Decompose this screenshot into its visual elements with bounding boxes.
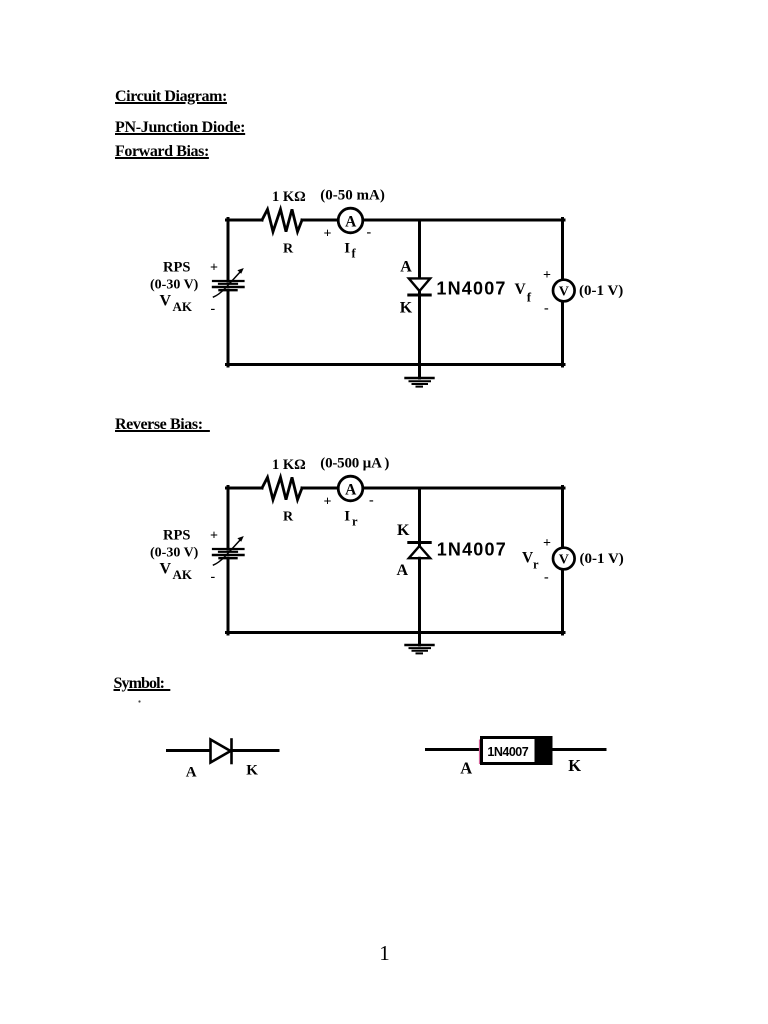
battery RPS (reverse): plates (213, 549, 244, 558)
svg-text:I: I (344, 241, 350, 257)
svg-text:AK: AK (173, 567, 193, 582)
svg-text:-: - (211, 570, 216, 585)
heading: PN-Junction Diode: (115, 120, 245, 136)
svg-text:f: f (352, 247, 357, 261)
heading: Forward Bias: (115, 144, 209, 160)
package symbol: cathode band (535, 736, 553, 765)
wire: left side lower (forward) (227, 290, 230, 366)
resistor R (reverse, 1 KOhm) (262, 477, 302, 499)
svg-text:1N4007: 1N4007 (437, 540, 507, 560)
wire: diode branch lower (forward) (418, 291, 421, 367)
battery variable arrow (reverse) (214, 536, 244, 565)
svg-text:-: - (211, 302, 216, 317)
label: 1 KOhm (forward) (272, 189, 306, 205)
wire: right side (forward) (561, 219, 564, 367)
svg-text:+: + (324, 227, 332, 242)
wire: left side upper (reverse) (227, 487, 230, 550)
svg-text:K: K (400, 299, 413, 316)
label: R (reverse) (283, 510, 294, 525)
label: K cathode (forward) (400, 299, 413, 316)
svg-text:+: + (543, 536, 551, 551)
label: Vr (522, 550, 539, 572)
label: + at voltmeter (reverse) (543, 536, 551, 551)
svg-text:+: + (543, 268, 551, 283)
label: (0-50 mA) (320, 188, 385, 204)
label: + at voltmeter (forward) (543, 268, 551, 283)
label: + at battery (reverse) (210, 529, 218, 544)
svg-text:r: r (352, 515, 358, 529)
wire: ammeter to top-right corner (reverse) (363, 487, 564, 490)
label: (0-30 V) (reverse) (150, 546, 199, 561)
ground stem (reverse) (418, 633, 421, 646)
wire: ammeter to top-right corner (forward) (363, 219, 564, 222)
dot artifact below Symbol heading (138, 700, 140, 702)
battery RPS (forward): plates (213, 281, 244, 290)
svg-text:-: - (544, 570, 549, 585)
svg-text:(0-30 V): (0-30 V) (150, 278, 199, 293)
ammeter A (reverse, 0-500 uA) (338, 476, 363, 501)
label: 1 KOhm (reverse) (272, 457, 306, 473)
label: VAK (reverse) (160, 561, 193, 583)
label: A (symbol left) (186, 764, 197, 780)
label: VAK (forward) (160, 293, 193, 315)
package symbol: right lead wire (552, 748, 605, 751)
wire: left side lower (reverse) (227, 558, 230, 634)
svg-text:A: A (186, 764, 197, 780)
package symbol: 1N4007 text (487, 745, 528, 759)
resistor R (forward, 1 KOhm) (262, 209, 302, 231)
svg-text:(0-1 V): (0-1 V) (579, 283, 623, 299)
package symbol: scan artifact pink edge (479, 740, 481, 765)
wire: resistor to ammeter (reverse) (302, 487, 339, 490)
svg-text:V: V (559, 553, 569, 568)
svg-text:1 KΩ: 1 KΩ (272, 189, 306, 205)
diode symbol: right lead wire (232, 749, 279, 752)
svg-text:K: K (246, 763, 258, 779)
diode D1 cathode bar (409, 294, 430, 297)
diode D1 1N4007 (forward): triangle (409, 278, 430, 291)
label: RPS (reverse) (163, 527, 190, 543)
heading: Reverse Bias: (115, 417, 210, 433)
label: 1N4007 (forward) (436, 278, 506, 298)
label: + at ammeter (forward) (324, 227, 332, 242)
page number 1 (379, 943, 390, 964)
label: R (forward) (283, 242, 294, 257)
heading: Circuit Diagram: (115, 89, 227, 105)
label: Vf (515, 281, 532, 305)
svg-text:r: r (533, 558, 539, 572)
svg-text:(0-50 mA): (0-50 mA) (320, 188, 385, 204)
wire: bottom (forward) (227, 363, 565, 366)
label: A (symbol right) (460, 759, 472, 778)
package symbol: body outline (482, 738, 552, 764)
svg-text:+: + (324, 495, 332, 510)
label: (0-500 uA) (320, 456, 389, 472)
voltmeter V (reverse, 0-1V) (553, 548, 575, 570)
label: K (symbol right) (568, 756, 581, 775)
battery variable arrow (forward) (214, 268, 244, 297)
wire: diode branch upper (reverse) (418, 488, 421, 546)
label: (0-30 V) (forward) (150, 278, 199, 293)
svg-text:AK: AK (173, 299, 193, 314)
label: K (symbol left) (246, 763, 258, 779)
svg-text:(0-30 V): (0-30 V) (150, 546, 199, 561)
svg-text:(0-1 V): (0-1 V) (580, 551, 624, 567)
label: - at voltmeter (reverse) (544, 570, 549, 585)
label: RPS (forward) (163, 259, 190, 275)
svg-text:RPS: RPS (163, 259, 190, 275)
svg-text:-: - (544, 301, 549, 316)
wire: top-left segment (forward) (227, 219, 263, 222)
label: - at ammeter (reverse) (369, 493, 374, 508)
svg-text:I: I (344, 509, 350, 525)
svg-text:A: A (460, 759, 472, 778)
diode symbol: cathode bar (230, 740, 233, 764)
svg-text:V: V (160, 561, 172, 578)
label: - at battery (forward) (211, 302, 216, 317)
svg-text:1 KΩ: 1 KΩ (272, 457, 306, 473)
svg-text:K: K (397, 522, 410, 539)
label: + at battery (forward) (210, 261, 218, 276)
svg-text:f: f (527, 290, 532, 305)
svg-text:K: K (568, 756, 581, 775)
svg-text:A: A (400, 258, 412, 275)
svg-text:(0-500 µA ): (0-500 µA ) (320, 456, 389, 472)
svg-text:V: V (559, 285, 569, 300)
svg-text:R: R (283, 242, 294, 257)
svg-text:+: + (210, 529, 218, 544)
label: - at voltmeter (forward) (544, 301, 549, 316)
svg-text:A: A (345, 213, 357, 230)
svg-text:A: A (397, 562, 409, 579)
wire: bottom (reverse) (227, 631, 565, 634)
ammeter A (forward, 0-50 mA) (338, 208, 363, 233)
wire: diode branch upper (forward) (418, 220, 421, 279)
ground symbol (forward) (406, 378, 434, 387)
label: (0-1V) (forward) (579, 283, 623, 299)
svg-text:V: V (515, 281, 527, 298)
diode D2 cathode bar (reverse) (409, 541, 430, 544)
svg-text:1N4007: 1N4007 (487, 745, 528, 759)
label: If (344, 241, 356, 261)
svg-text:+: + (210, 261, 218, 276)
package symbol: left lead wire (427, 748, 481, 751)
wire: top-left segment (reverse) (227, 487, 263, 490)
label: A anode (forward) (400, 258, 412, 275)
heading: Symbol: (114, 676, 171, 692)
label: - at battery (reverse) (211, 570, 216, 585)
label: 1N4007 (reverse) (437, 540, 507, 560)
ground symbol (reverse) (406, 645, 434, 653)
svg-text:-: - (369, 493, 374, 508)
diode symbol: left lead wire (168, 749, 210, 752)
ground stem (forward) (418, 365, 421, 379)
wire: resistor to ammeter (forward) (302, 219, 339, 222)
diode symbol: triangle (211, 740, 231, 763)
label: - at ammeter (forward) (367, 225, 372, 240)
svg-text:1N4007: 1N4007 (436, 278, 506, 298)
wire: diode branch lower (reverse) (418, 558, 421, 634)
label: K cathode (reverse) (397, 522, 410, 539)
label: (0-1V) (reverse) (580, 551, 624, 567)
voltmeter V (forward, 0-1V) (553, 280, 575, 302)
label: + at ammeter (reverse) (324, 495, 332, 510)
wire: right side (reverse) (561, 487, 564, 635)
label: Ir (344, 509, 358, 529)
svg-text:RPS: RPS (163, 527, 190, 543)
svg-text:V: V (160, 293, 172, 310)
svg-text:R: R (283, 510, 294, 525)
svg-text:A: A (345, 481, 357, 498)
diode D2 1N4007 (reverse): triangle (409, 546, 430, 558)
wire: left side upper (forward) (227, 219, 230, 282)
label: A anode (reverse) (397, 562, 409, 579)
svg-text:-: - (367, 225, 372, 240)
